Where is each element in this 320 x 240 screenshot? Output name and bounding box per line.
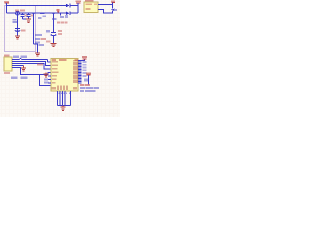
small blue text below rail 2 bbox=[43, 15, 47, 17]
sheet background bbox=[0, 0, 120, 117]
wire: CN1 pin1 bbox=[98, 5, 113, 9]
ground (below C1 lead) bbox=[15, 36, 20, 39]
ground (below C6) bbox=[50, 43, 56, 46]
wire: diode cathode tie vertical bbox=[77, 6, 79, 14]
lavender group box (top-left power section) bbox=[5, 6, 36, 52]
wire: jog to ground stem bbox=[34, 44, 38, 53]
wire: J2 pin1 to U1 pin1 (with hop) bbox=[12, 60, 51, 63]
labels below harness bbox=[11, 76, 18, 78]
label C2 bbox=[25, 15, 29, 17]
red label mid harness bbox=[37, 63, 43, 65]
wire: CN1 pin2 path bbox=[98, 10, 113, 14]
label left of U1 pin6 bbox=[44, 79, 48, 81]
connector J2 (yellow, left) bbox=[4, 55, 12, 74]
label above C1 bbox=[15, 10, 19, 12]
label C4 row2 bbox=[12, 21, 17, 23]
net label row 1 bbox=[35, 34, 42, 36]
capacitor C3 bbox=[27, 13, 31, 19]
ground (below C3) bbox=[26, 19, 31, 22]
IC U1 (CH340) bbox=[51, 59, 78, 92]
label C3 bbox=[31, 15, 35, 17]
junction node (x33.5 on VCC rail) bbox=[33, 12, 35, 14]
wire: vertical drop from x53.5 bbox=[53, 13, 55, 32]
power arrow flag (red, on rail) bbox=[57, 9, 60, 13]
value label red row 2 bbox=[41, 38, 47, 40]
value right of C6 row2 bbox=[58, 33, 62, 35]
wire: C2 bottom to C3 bottom bbox=[23, 18, 29, 20]
blue note row 1 bbox=[80, 87, 85, 89]
wire: D2 cathode to junction bbox=[70, 12, 78, 14]
blue tick right bbox=[65, 15, 68, 18]
U1 bottom pin names (rotated) bbox=[52, 86, 78, 91]
connector CN1 (top right, yellow) bbox=[84, 0, 98, 13]
label GND at stem bbox=[39, 44, 45, 46]
wire: C6 lower lead bbox=[53, 36, 55, 43]
capacitor C2 bbox=[21, 13, 25, 19]
wire: stem from +5V flag bbox=[6, 3, 8, 13]
value label right of C4 bbox=[21, 30, 26, 32]
red text row (bottom right) bbox=[80, 84, 85, 86]
power flag (above diode junction) bbox=[76, 0, 82, 5]
U1 right pin names bbox=[73, 60, 78, 83]
designator U1 bbox=[52, 59, 56, 61]
U1 right pin stubs bbox=[78, 61, 82, 84]
capacitor C4 (polarized, on C1 lead) bbox=[15, 28, 21, 31]
net label row 3 bbox=[35, 42, 40, 44]
wire: J2 pin4 to ground bbox=[12, 65, 24, 67]
wire: J2 pin5 down and along bottom to U1 bbox=[12, 68, 51, 75]
power flag +5V (top-left) bbox=[4, 1, 9, 3]
wire: branch down to U1 8th pin bbox=[40, 75, 52, 86]
wire: J2 pin3 to U1 pin3 bbox=[12, 64, 51, 70]
label left of C6 bbox=[46, 30, 50, 32]
wire: VCC rail bbox=[7, 12, 67, 14]
power flag (top right of U1) bbox=[82, 56, 88, 60]
net arrow marker (far right) bbox=[111, 9, 117, 12]
diode D1 bbox=[66, 4, 70, 8]
ground (below U1) bbox=[60, 106, 65, 111]
wire: C1 down lead bbox=[17, 15, 19, 35]
U1 left pin names bbox=[52, 61, 59, 83]
junction node (x53.5 on VCC rail) bbox=[53, 12, 55, 14]
power flag (right mid) bbox=[86, 73, 91, 85]
capacitor C1 (electrolytic at x17.5 on rail) bbox=[16, 11, 20, 15]
labels above harness bbox=[13, 56, 19, 58]
part number bbox=[59, 59, 67, 61]
value right of C6 row1 bbox=[58, 30, 62, 32]
wire: J2 pin2 to U1 pin2 bbox=[12, 62, 51, 66]
pin count tag bbox=[75, 59, 79, 61]
net label row 2 bbox=[35, 38, 40, 40]
blue label near DC jack note bbox=[60, 13, 62, 15]
wire: top rail bbox=[7, 5, 67, 7]
wire hop bbox=[20, 58, 22, 61]
label C4 row1 bbox=[12, 19, 16, 21]
U1 left pin stubs 5-7 bbox=[48, 76, 51, 83]
right net labels bbox=[83, 61, 87, 77]
small blue text below rail bbox=[38, 17, 42, 19]
label left of U1 pin7 bbox=[44, 82, 49, 84]
label VCC by vertical bbox=[52, 18, 57, 20]
ground (below J2 pin4 wire) bbox=[21, 66, 26, 72]
label left of ground bbox=[46, 40, 51, 42]
ground (bottom of lavender box) bbox=[35, 53, 40, 56]
capacitor C6 (polarized, at x53.5) bbox=[51, 32, 56, 35]
grid bbox=[0, 0, 120, 117]
ground (left of U1) bbox=[43, 73, 48, 78]
diode D2 bbox=[66, 11, 70, 15]
net label blob on rail (x40-44) bbox=[40, 13, 45, 15]
pin numbers (below U1 bottom edge) bbox=[59, 92, 71, 94]
blue note row 2 bbox=[80, 90, 84, 92]
power flag (top far right) bbox=[111, 0, 115, 4]
U1 bottom pin stubs bbox=[58, 91, 71, 106]
red note row bbox=[57, 22, 60, 24]
wire: vertical drop from junction bbox=[33, 13, 35, 44]
small blue label next to vertical bbox=[84, 79, 88, 82]
wire: D1 cathode to junction bbox=[70, 5, 78, 7]
